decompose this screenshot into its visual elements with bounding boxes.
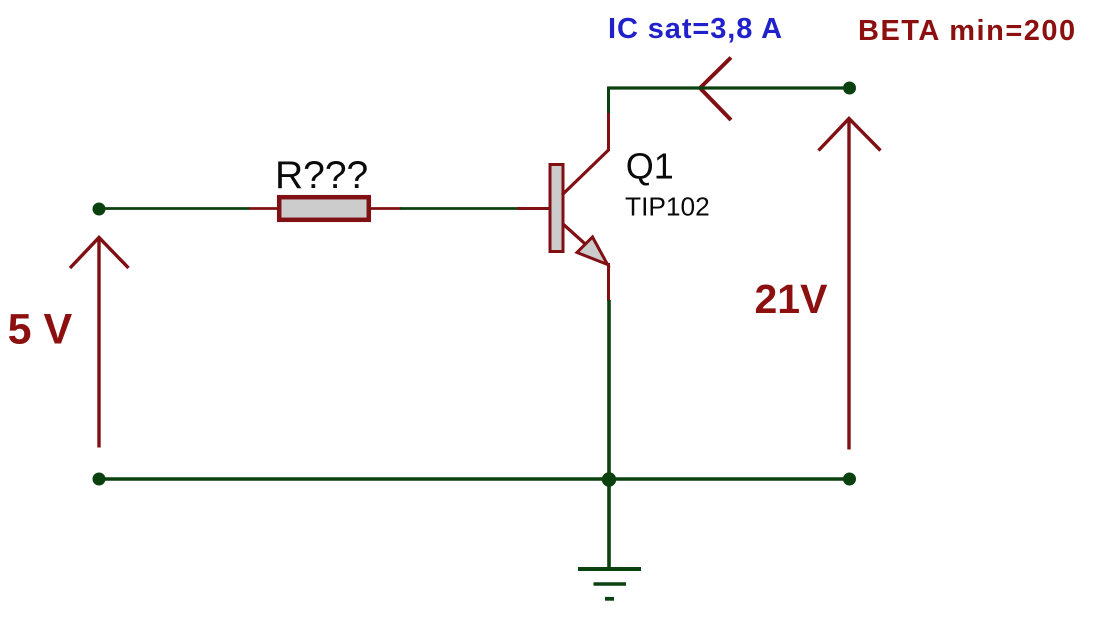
svg-text:Q1: Q1 <box>626 145 674 186</box>
wire emitter vertical green <box>607 300 611 480</box>
transistor Q1 emitter pin vertical <box>607 263 610 301</box>
5V source arrow <box>70 238 129 448</box>
transistor Q1 emitter arrow <box>577 237 608 265</box>
wire base left horizontal <box>97 207 250 210</box>
svg-text:5 V: 5 V <box>8 306 73 354</box>
svg-text:21V: 21V <box>755 276 829 322</box>
wire base mid horizontal <box>400 207 518 210</box>
node dot left base <box>93 203 106 216</box>
svg-text:BETA min=200: BETA min=200 <box>858 15 1077 47</box>
node dot bottom left <box>93 473 106 486</box>
resistor R??? body <box>279 197 369 220</box>
svg-text:TIP102: TIP102 <box>625 191 710 221</box>
wire resistor right pin <box>369 207 401 210</box>
wire bottom horizontal <box>99 477 850 481</box>
ground <box>578 569 641 599</box>
wire resistor left pin <box>249 207 279 210</box>
transistor Q1 collector pin vertical <box>607 113 610 151</box>
transistor Q1 collector lead diagonal <box>562 150 609 195</box>
21V source arrow <box>819 119 881 450</box>
transistor Q1 emitter lead diagonal <box>563 224 608 264</box>
wire ground stem <box>607 479 611 567</box>
transistor Q1 base pin <box>517 207 549 210</box>
node dot bottom right <box>843 473 856 486</box>
wire top horizontal <box>607 86 850 89</box>
svg-text:R???: R??? <box>275 154 368 197</box>
wire collector vertical green <box>607 87 610 114</box>
transistor Q1 base bar <box>550 165 563 252</box>
svg-text:IC sat=3,8 A: IC sat=3,8 A <box>608 13 783 45</box>
node dot top right <box>843 82 856 95</box>
current arrowhead on top wire <box>700 58 731 121</box>
node dot bottom center junction <box>602 472 616 486</box>
